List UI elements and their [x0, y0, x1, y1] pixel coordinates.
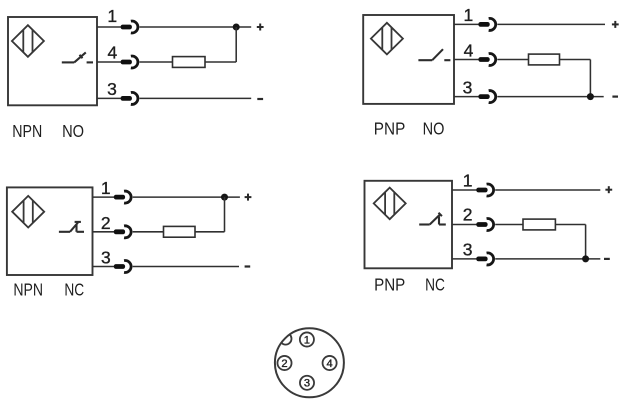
- svg-text:3: 3: [463, 77, 473, 97]
- svg-text:1: 1: [463, 170, 473, 190]
- connector socket arc (PNP NC pin3): [487, 253, 494, 265]
- vertical wire junction to load (NPN NO): [235, 27, 237, 62]
- connector plug pin contact (NPN NO pin1): [121, 25, 132, 30]
- vertical wire load to minus rail (PNP NC): [585, 225, 587, 259]
- wire pin1 to plus terminal (NPN NC): [133, 196, 240, 198]
- wire pin1 to plus terminal (PNP NC): [495, 189, 600, 191]
- NO switch contact (PNP NO): [418, 49, 450, 60]
- connector socket arc (PNP NC pin2): [487, 218, 494, 230]
- sensor symbol inner band right line (NPN NC): [32, 200, 34, 223]
- wire pin1 box to connector (PNP NC): [452, 189, 477, 191]
- connector plug pin contact (PNP NC pin1): [476, 188, 487, 193]
- wire pin4 to load resistor (PNP NO): [497, 59, 528, 61]
- minus terminal (PNP NO): [612, 95, 618, 97]
- vertical wire junction to load (NPN NC): [224, 197, 226, 232]
- minus terminal (NPN NO): [257, 98, 263, 100]
- minus terminal (PNP NC): [604, 258, 610, 260]
- connector plug pin contact (NPN NO pin3): [121, 96, 132, 101]
- proximity sensor symbol diamond (PNP NO): [371, 23, 403, 55]
- sensor symbol inner band left line (NPN NO): [22, 30, 24, 53]
- wire pin1 box to connector (NPN NC): [93, 196, 115, 198]
- svg-text:3: 3: [304, 378, 310, 390]
- wire pin3 box to connector (PNP NC): [452, 258, 477, 260]
- svg-text:1: 1: [101, 178, 111, 198]
- sensor body box (NPN NC): [7, 187, 93, 275]
- svg-text:PNP: PNP: [374, 118, 406, 138]
- proximity sensor symbol diamond (NPN NC): [12, 196, 44, 228]
- svg-text:1: 1: [464, 5, 474, 25]
- svg-text:NC: NC: [64, 280, 84, 300]
- connector plug pin contact (NPN NO pin4): [121, 60, 132, 65]
- svg-text:4: 4: [326, 358, 332, 370]
- wire pin3 to minus terminal (PNP NC): [495, 258, 600, 260]
- svg-text:PNP: PNP: [374, 274, 405, 294]
- connector plug pin contact (PNP NO pin4): [478, 57, 489, 62]
- svg-text:NC: NC: [425, 274, 445, 294]
- svg-text:NPN: NPN: [12, 121, 42, 141]
- connector plug pin contact (NPN NC pin2): [114, 229, 125, 234]
- svg-text:1: 1: [304, 334, 310, 346]
- connector socket arc (PNP NO pin3): [489, 91, 496, 103]
- load resistor (PNP NC): [523, 219, 555, 230]
- junction dot wire1 (NPN NC): [221, 194, 228, 201]
- svg-text:3: 3: [101, 247, 111, 267]
- connector outer circle: [275, 328, 344, 397]
- svg-text:3: 3: [107, 79, 117, 99]
- sensor symbol inner band left line (PNP NC): [384, 192, 386, 215]
- NC switch contact (PNP NC): [419, 213, 446, 225]
- connector socket arc (PNP NO pin4): [489, 54, 496, 66]
- connector plug pin contact (NPN NC pin1): [114, 195, 125, 200]
- wire resistor to junction (NPN NC): [195, 231, 225, 233]
- sensor body box (NPN NO): [8, 17, 97, 105]
- connector socket arc (NPN NC pin1): [124, 191, 131, 203]
- junction dot wire3 (PNP NC): [582, 255, 589, 262]
- sensor symbol inner band left line (PNP NO): [381, 27, 383, 50]
- wire pin1 box to connector (NPN NO): [97, 26, 121, 28]
- plus terminal (PNP NC): [605, 186, 612, 193]
- connector socket arc (NPN NC pin3): [124, 261, 131, 273]
- connector face pin 1 circle: [300, 332, 314, 346]
- wire pin2 to load resistor (PNP NC): [495, 224, 523, 226]
- svg-text:2: 2: [281, 358, 287, 370]
- wire pin3 to minus terminal (NPN NC): [133, 266, 239, 268]
- wire pin4 box to connector (PNP NO): [454, 59, 479, 61]
- svg-text:3: 3: [463, 240, 473, 260]
- wire pin1 box to connector (PNP NO): [454, 23, 479, 25]
- svg-text:4: 4: [108, 42, 118, 62]
- connector socket arc (NPN NO pin3): [131, 92, 138, 104]
- svg-text:2: 2: [101, 213, 111, 233]
- wire pin3 to minus terminal (PNP NO): [497, 96, 603, 98]
- connector plug pin contact (PNP NC pin3): [476, 257, 487, 262]
- load resistor (PNP NO): [529, 54, 560, 65]
- connector face pin 2 circle: [277, 356, 291, 370]
- connector keyway notch: [280, 333, 292, 345]
- connector face pin 4 circle: [323, 356, 337, 370]
- junction dot wire1 (NPN NO): [233, 24, 240, 31]
- wire pin2 to load resistor (NPN NC): [133, 231, 164, 233]
- plus terminal (NPN NO): [257, 24, 264, 31]
- wire resistor to junction (NPN NO): [205, 61, 236, 63]
- svg-text:1: 1: [107, 6, 117, 26]
- wire resistor to vertical drop (PNP NC): [555, 224, 585, 226]
- connector socket arc (PNP NC pin1): [487, 184, 494, 196]
- wire pin2 box to connector (PNP NC): [452, 224, 477, 226]
- connector plug pin contact (PNP NO pin3): [478, 94, 489, 99]
- load resistor (NPN NO): [173, 57, 206, 68]
- wire pin4 to load resistor (NPN NO): [140, 61, 173, 63]
- connector plug pin contact (PNP NC pin2): [476, 222, 487, 227]
- sensor symbol inner band left line (NPN NC): [23, 200, 25, 223]
- svg-text:NO: NO: [423, 118, 445, 138]
- wire pin4 box to connector (NPN NO): [97, 61, 121, 63]
- sensor symbol inner band right line (NPN NO): [32, 30, 34, 53]
- NC switch contact (NPN NC): [59, 222, 84, 232]
- NO switch contact (NPN NO): [62, 52, 93, 62]
- connector socket arc (NPN NO pin1): [131, 21, 138, 33]
- svg-text:NPN: NPN: [13, 280, 43, 300]
- load resistor (NPN NC): [164, 226, 196, 237]
- connector plug pin contact (NPN NC pin3): [114, 264, 125, 269]
- junction dot wire3 (PNP NO): [587, 93, 594, 100]
- connector face pin 3 circle: [300, 376, 314, 390]
- plus terminal (PNP NO): [612, 21, 619, 28]
- proximity sensor symbol diamond (NPN NO): [12, 25, 44, 57]
- connector socket arc (PNP NO pin1): [489, 18, 496, 30]
- wire pin2 box to connector (NPN NC): [93, 231, 115, 233]
- wire pin3 box to connector (PNP NO): [454, 96, 479, 98]
- wire pin3 box to connector (NPN NO): [97, 97, 121, 99]
- wire pin1 to plus terminal (NPN NO): [140, 26, 252, 28]
- svg-text:4: 4: [464, 40, 474, 60]
- vertical wire load to minus rail (PNP NO): [589, 60, 591, 97]
- wire pin3 box to connector (NPN NC): [93, 266, 115, 268]
- connector socket arc (NPN NC pin2): [124, 226, 131, 238]
- wire pin1 to plus terminal (PNP NO): [497, 23, 605, 25]
- sensor symbol inner band right line (PNP NC): [393, 192, 395, 215]
- sensor symbol inner band right line (PNP NO): [391, 27, 393, 50]
- wire pin3 to minus terminal (NPN NO): [140, 97, 252, 99]
- connector plug pin contact (PNP NO pin1): [478, 22, 489, 27]
- sensor body box (PNP NO): [363, 15, 454, 104]
- plus terminal (NPN NC): [245, 194, 252, 201]
- connector socket arc (NPN NO pin4): [131, 56, 138, 68]
- sensor body box (PNP NC): [365, 181, 453, 268]
- proximity sensor symbol diamond (PNP NC): [374, 188, 406, 220]
- svg-text:NO: NO: [62, 121, 84, 141]
- svg-text:2: 2: [463, 205, 473, 225]
- minus terminal (NPN NC): [245, 265, 251, 267]
- wire resistor to vertical drop (PNP NO): [560, 59, 591, 61]
